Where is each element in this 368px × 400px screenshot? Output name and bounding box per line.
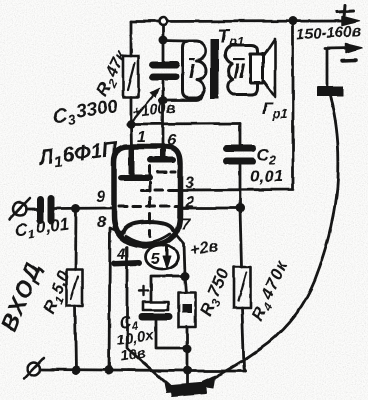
- tube center support dashed: [149, 166, 152, 236]
- tube screen grid dash: [158, 171, 175, 174]
- wire R2 bottom lead: [130, 97, 133, 124]
- label C3 3300: [51, 96, 120, 130]
- wire C3 bottom lead: [162, 80, 165, 101]
- arrowhead B+: [342, 17, 359, 26]
- svg-text:0,01: 0,01: [250, 167, 283, 186]
- wire curve to ground: [203, 96, 338, 382]
- svg-text:6: 6: [167, 132, 176, 149]
- wire pin 6: [162, 101, 165, 148]
- minus connector bar: [317, 87, 343, 97]
- wire pin 2: [181, 207, 240, 210]
- tube inner bottom arc: [126, 234, 170, 243]
- input terminal top: [14, 203, 27, 216]
- resistor R4: [234, 267, 251, 308]
- input terminal bottom: [28, 363, 41, 376]
- tube cathode arc: [123, 222, 173, 233]
- svg-text:9: 9: [96, 189, 105, 206]
- wire R1 top lead: [74, 209, 77, 270]
- junction dot bus R3: [183, 366, 192, 375]
- minus sign: [342, 58, 356, 62]
- wire primary bottom: [163, 92, 203, 101]
- wire C3 branch upper: [162, 26, 165, 62]
- wire blob drop: [186, 371, 189, 386]
- wire C1 to grid: [55, 207, 115, 210]
- junction dot B+ right: [289, 17, 298, 26]
- resistor R2: [124, 56, 139, 97]
- tube pentode anode: [150, 150, 173, 160]
- heater pin 5 arrow: [166, 247, 169, 258]
- junction dot R3 bottom: [183, 345, 192, 354]
- junction dot primary top: [159, 36, 168, 45]
- pin 4 bar: [114, 263, 139, 264]
- wire right rail: [181, 21, 293, 190]
- capacitor C4 plus: [139, 286, 148, 296]
- capacitor C3: [153, 65, 176, 77]
- wire minus lead: [326, 49, 329, 87]
- wire C2 bottom lead: [239, 165, 242, 208]
- wire B+ top rail: [131, 20, 356, 23]
- wire C4 bottom lead: [156, 320, 187, 349]
- heater pin 5 circle: [146, 245, 179, 269]
- svg-text:4: 4: [116, 246, 126, 263]
- capacitor C4 top plate: [143, 302, 168, 310]
- speaker Gr1: [263, 39, 275, 97]
- junction dot cathode node: [181, 272, 190, 281]
- svg-text:3: 3: [185, 175, 194, 192]
- wire ground bus: [41, 370, 246, 372]
- wire R4 top lead: [240, 208, 242, 267]
- capacitor C2: [226, 149, 253, 162]
- curve arrowhead at blob: [200, 376, 215, 389]
- wire R2 top lead: [130, 22, 133, 57]
- svg-text:10в: 10в: [119, 345, 147, 365]
- wire pin 7 cathode right: [173, 230, 185, 276]
- transformer core: [211, 39, 220, 100]
- svg-text:1: 1: [137, 129, 146, 146]
- ground blob: [171, 383, 206, 396]
- wire pin 8 cathode left: [109, 228, 123, 370]
- wire pin 4 heater: [127, 247, 172, 388]
- svg-text:8: 8: [97, 214, 106, 231]
- capacitor C1: [40, 198, 51, 221]
- tube grid row pin9 pin2: [119, 205, 177, 208]
- svg-text:5: 5: [151, 251, 161, 268]
- tube triode anode: [121, 150, 150, 178]
- heater wire arrowhead: [164, 380, 178, 394]
- tube grid row pin3: [141, 189, 178, 192]
- wire R4 bottom lead: [242, 308, 246, 371]
- wire primary top: [163, 39, 186, 42]
- svg-text:2: 2: [184, 194, 194, 211]
- junction dot grid node: [72, 204, 81, 213]
- junction dot anode node: [159, 97, 168, 106]
- junction dot pin2 node: [236, 204, 245, 213]
- svg-text:II: II: [233, 60, 246, 83]
- resistor R1: [67, 269, 83, 306]
- wire input to C1: [27, 208, 37, 211]
- transformer secondary II: [225, 45, 257, 95]
- wire R3 bottom lead: [186, 327, 189, 371]
- wire pin1 to C2 coupling: [131, 122, 240, 125]
- tube envelope: [114, 147, 180, 246]
- wire pin 1: [130, 124, 133, 148]
- capacitor C4 bottom plate: [142, 313, 169, 320]
- minus terminal arrow: [325, 47, 352, 50]
- svg-text:7: 7: [181, 216, 191, 233]
- junction dot pin1 node: [127, 120, 136, 129]
- label C3 arrow: [130, 91, 157, 124]
- node open circle on B+ rail: [159, 18, 167, 26]
- junction dot bus pin8: [105, 366, 114, 375]
- wire R1 bottom lead: [75, 306, 76, 370]
- plus sign supply: [337, 5, 353, 18]
- junction dot bus R1: [72, 366, 81, 375]
- wire cathode to C4: [151, 276, 185, 302]
- transformer Tp1 primary I: [183, 41, 207, 98]
- resistor R3: [185, 276, 187, 292]
